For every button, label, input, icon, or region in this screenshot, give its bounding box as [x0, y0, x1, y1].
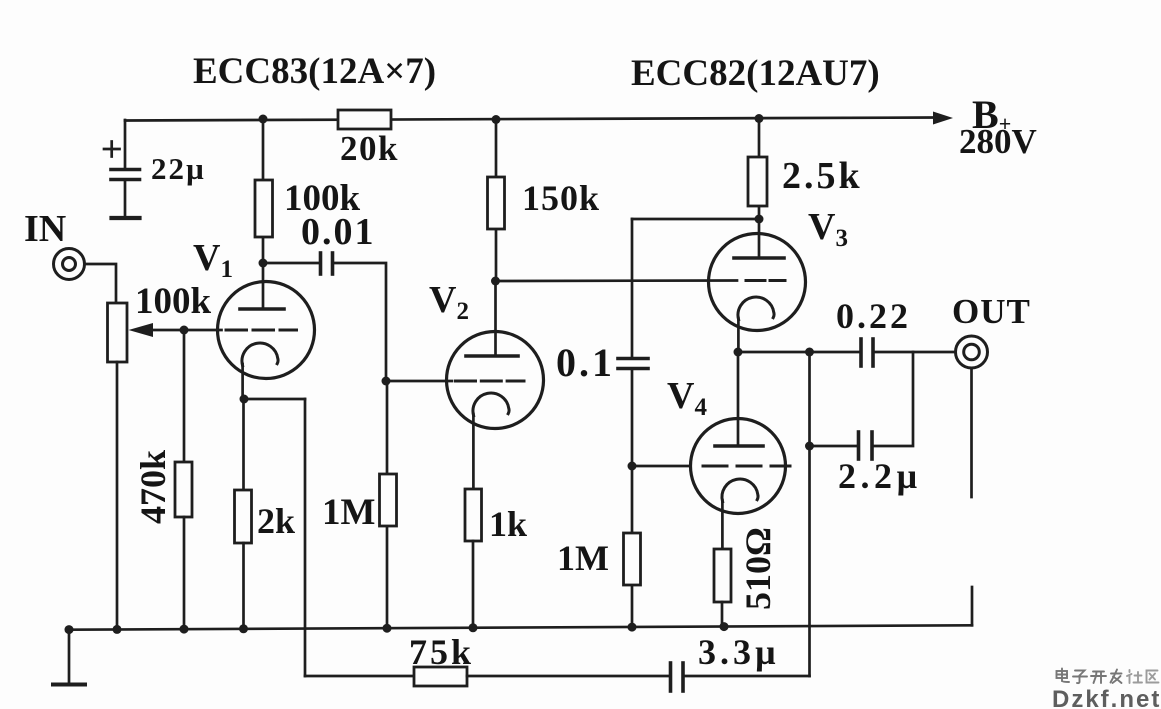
tube V4 grid dashes	[703, 465, 790, 468]
wire cathode to 2k	[242, 399, 245, 490]
resistor 20k	[338, 110, 391, 129]
svg-text:2.5k: 2.5k	[782, 155, 863, 197]
capacitor 22u open end bar	[112, 216, 140, 220]
tube V4 cathode hook	[722, 479, 758, 502]
wire 0.22 to OUT	[875, 351, 956, 354]
tube V1 envelope	[218, 282, 315, 379]
wire 0.01 cap to V2 grid node	[334, 263, 386, 381]
node V4 grid	[628, 462, 637, 471]
wire feedback riser	[808, 446, 811, 676]
svg-text:V4: V4	[667, 375, 707, 421]
wire feedback vertical down	[304, 399, 307, 676]
svg-text:0.22: 0.22	[836, 296, 911, 336]
capacitor 3.3u plates	[669, 663, 673, 691]
resistor 75k	[414, 667, 467, 686]
capacitor 0.01 plates	[319, 253, 323, 274]
wire V2 grid node to tube	[386, 380, 452, 383]
svg-text:1M: 1M	[322, 492, 375, 533]
tube V3 cathode hook	[738, 297, 774, 320]
wire bootstrap vertical lower	[631, 370, 634, 466]
node V1 plate / 0.01 cap	[259, 259, 268, 268]
resistor 1M grid leak	[380, 474, 397, 526]
resistor 1M V4	[624, 533, 641, 585]
svg-text:0.01: 0.01	[301, 211, 376, 253]
potentiometer wiper arrow	[153, 329, 185, 332]
svg-text:22µ: 22µ	[151, 151, 206, 186]
tube V3 cathode lead	[737, 318, 740, 352]
wire cathode to feedback branch	[244, 398, 305, 401]
svg-text:Dzkf.net: Dzkf.net	[1052, 686, 1161, 709]
tube V4 envelope	[691, 419, 786, 514]
wire 1k to ground rail	[472, 541, 475, 628]
svg-text:510Ω: 510Ω	[738, 527, 778, 610]
node V1 cathode	[240, 395, 249, 404]
resistor 100k plate load	[255, 180, 273, 237]
tube V4 plate lead	[737, 352, 740, 446]
wire ground rail right riser	[971, 587, 974, 625]
wire B+ top rail	[125, 118, 936, 121]
tube V1 plate lead	[262, 263, 265, 309]
wire 470k to ground rail	[183, 517, 186, 629]
ground	[68, 630, 71, 684]
wire wiper down to 470k	[183, 330, 186, 462]
node wiper junction	[180, 326, 189, 335]
resistor 470k	[175, 462, 192, 517]
tube V4 plate bar	[715, 444, 763, 448]
node rail-V3	[755, 114, 764, 123]
node V3 cathode V4 plate	[734, 348, 743, 357]
wire to 2.2u cap	[810, 445, 858, 448]
wire 3.3u to output riser	[685, 675, 810, 678]
wire V3 plate to bootstrap vertical	[632, 218, 759, 221]
resistor 2k	[235, 490, 252, 543]
svg-text:2k: 2k	[257, 501, 295, 541]
terminal IN	[54, 249, 85, 280]
tube V1 grid dashes	[226, 329, 297, 332]
tube V3 plate bar	[734, 256, 784, 260]
tube V2 plate lead	[494, 281, 497, 356]
potentiometer 100k body	[108, 303, 128, 362]
svg-text:V1: V1	[193, 237, 233, 283]
wire 2k to ground rail	[242, 543, 245, 629]
svg-text:100k: 100k	[135, 281, 212, 322]
resistor 100k plate load leads	[262, 119, 265, 180]
resistor 1M V4 leads	[631, 466, 634, 533]
resistor 2.5k leads	[758, 118, 761, 157]
plus polarity sign	[104, 148, 120, 151]
svg-text:0.1: 0.1	[556, 340, 615, 385]
svg-text:IN: IN	[24, 208, 66, 250]
node V2 plate	[491, 277, 500, 286]
tube V3 grid dashes	[746, 279, 785, 282]
tube V2 grid dashes	[456, 380, 525, 383]
B+ arrowhead	[933, 112, 953, 125]
svg-text:470k: 470k	[133, 450, 173, 524]
wire V2 plate node to V3 grid	[496, 279, 738, 282]
watermark CJK	[1057, 669, 1122, 684]
tube V1 plate bar	[240, 307, 284, 311]
svg-text:3.3µ: 3.3µ	[698, 632, 780, 672]
svg-text:ECC82(12AU7): ECC82(12AU7)	[631, 53, 880, 94]
svg-text:2.2µ: 2.2µ	[838, 456, 922, 496]
svg-text:1k: 1k	[489, 504, 527, 544]
terminal OUT	[956, 336, 988, 368]
capacitor C 22u plates	[111, 168, 140, 172]
svg-text:ECC83(12A×7): ECC83(12A×7)	[193, 51, 436, 92]
tube V2 envelope	[447, 332, 544, 429]
node rail junctions	[65, 625, 74, 634]
svg-text:75k: 75k	[409, 632, 474, 672]
node V3 plate	[755, 215, 764, 224]
node rail-V1	[259, 115, 268, 124]
wire IN to pot	[85, 264, 116, 303]
resistor 1k	[465, 489, 482, 541]
svg-text:V2: V2	[429, 279, 469, 325]
resistor 510ohm	[714, 549, 731, 602]
wire pot bottom to ground rail	[116, 362, 119, 630]
wire ground rail	[69, 625, 972, 629]
tube V2 cathode lead	[472, 414, 475, 489]
wire node to 0.01 cap	[263, 262, 319, 265]
tube V1 cathode lead	[241, 364, 244, 399]
resistor 1M grid leak leads	[386, 381, 389, 474]
resistor 150k leads	[495, 119, 498, 177]
resistor 150k	[488, 177, 505, 229]
tube V3 envelope	[709, 234, 806, 331]
tube V4 cathode lead	[721, 500, 724, 549]
wire OUT terminal down	[970, 368, 973, 497]
svg-text:20k: 20k	[340, 129, 399, 168]
svg-text:OUT: OUT	[952, 292, 1031, 331]
capacitor C 22u leads	[124, 120, 127, 167]
node rail-V2	[492, 115, 501, 124]
wire feedback bottom run	[305, 675, 414, 678]
wire node to 0.22 cap	[738, 351, 859, 354]
wire V4 grid node to tube	[632, 465, 691, 468]
capacitor 0.1 plates	[618, 357, 648, 361]
tube V2 cathode hook	[473, 393, 509, 416]
wire wiper to V1 grid	[184, 329, 222, 332]
wire 2.2u to riser	[874, 352, 914, 446]
capacitor 0.22 plates	[859, 339, 863, 366]
svg-text:280V: 280V	[959, 122, 1037, 161]
svg-text:1M: 1M	[557, 538, 609, 578]
node V2 grid	[382, 377, 391, 386]
tube V2 plate bar	[466, 354, 518, 358]
tube V3 plate lead	[758, 219, 761, 258]
capacitor 2.2u plates	[857, 432, 861, 459]
resistor 2.5k	[748, 157, 767, 206]
wire output junction down	[808, 352, 811, 446]
tube V1 cathode hook	[242, 343, 278, 366]
svg-text:V3: V3	[808, 206, 848, 252]
node output junction upper	[805, 348, 814, 357]
wire bootstrap vertical upper	[631, 219, 634, 357]
wire 75k to 3.3u	[467, 675, 668, 678]
svg-text:150k: 150k	[522, 178, 600, 218]
node output junction lower	[805, 442, 814, 451]
wire 510ohm to ground rail	[721, 602, 724, 627]
